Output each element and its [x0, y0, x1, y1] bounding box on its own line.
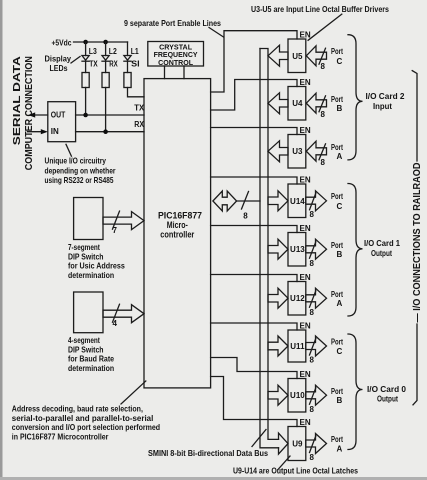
svg-text:U11: U11 — [290, 342, 305, 351]
svg-text:CONTROL: CONTROL — [158, 58, 193, 67]
svg-text:SI: SI — [131, 60, 140, 69]
svg-text:U3: U3 — [292, 147, 303, 156]
svg-text:controller: controller — [160, 229, 194, 239]
svg-text:EN: EN — [300, 418, 311, 427]
svg-text:Port: Port — [331, 290, 343, 299]
svg-text:determination: determination — [68, 270, 114, 280]
svg-text:U14: U14 — [290, 197, 305, 206]
svg-text:8: 8 — [243, 212, 248, 221]
svg-text:Port: Port — [331, 47, 343, 56]
svg-text:EN: EN — [300, 370, 311, 379]
svg-text:C: C — [337, 347, 343, 356]
svg-text:8: 8 — [310, 210, 315, 219]
svg-text:C: C — [337, 202, 343, 211]
svg-text:SERIAL DATA: SERIAL DATA — [11, 56, 23, 146]
svg-text:Output: Output — [371, 248, 392, 258]
svg-text:in PIC16F877 Microcontroller: in PIC16F877 Microcontroller — [12, 431, 109, 441]
svg-text:B: B — [337, 104, 343, 113]
svg-text:+5Vdc: +5Vdc — [52, 38, 72, 48]
svg-text:Port: Port — [331, 338, 343, 347]
svg-text:PIC16F877: PIC16F877 — [158, 211, 202, 221]
svg-text:C: C — [337, 57, 343, 66]
svg-text:LEDs: LEDs — [50, 63, 68, 73]
svg-text:L1: L1 — [131, 47, 139, 56]
svg-text:8: 8 — [321, 158, 326, 167]
svg-text:RX: RX — [134, 120, 144, 129]
svg-text:COMPUTER CONNECTION: COMPUTER CONNECTION — [23, 56, 35, 170]
svg-text:A: A — [337, 299, 343, 308]
svg-text:IN: IN — [51, 126, 59, 136]
svg-text:EN: EN — [300, 273, 311, 282]
svg-text:8: 8 — [310, 453, 315, 462]
svg-text:Port: Port — [331, 192, 343, 201]
svg-text:L2: L2 — [109, 47, 117, 56]
svg-text:EN: EN — [300, 322, 311, 331]
svg-text:U9-U14 are Output Line Octal L: U9-U14 are Output Line Octal Latches — [233, 466, 358, 476]
svg-text:Port: Port — [331, 95, 343, 104]
svg-text:U12: U12 — [290, 294, 305, 303]
svg-text:8: 8 — [310, 308, 315, 317]
svg-text:Input: Input — [373, 101, 392, 111]
svg-text:Port: Port — [331, 143, 343, 152]
svg-text:I/O Card 1: I/O Card 1 — [364, 238, 400, 248]
svg-text:determination: determination — [68, 363, 114, 373]
svg-text:RX: RX — [109, 60, 118, 69]
svg-text:I/O Card 2: I/O Card 2 — [366, 91, 405, 101]
svg-text:U5: U5 — [292, 52, 303, 61]
svg-text:TX: TX — [89, 60, 98, 69]
svg-text:using RS232 or RS485: using RS232 or RS485 — [45, 175, 114, 185]
svg-text:U4: U4 — [292, 99, 303, 108]
svg-text:L3: L3 — [89, 47, 97, 56]
svg-text:Port: Port — [331, 241, 343, 250]
svg-text:Unique I/O circuitry: Unique I/O circuitry — [45, 155, 107, 165]
svg-text:EN: EN — [300, 224, 311, 233]
svg-text:8: 8 — [321, 62, 326, 71]
svg-text:TX: TX — [134, 103, 144, 112]
svg-text:I/O Card 0: I/O Card 0 — [367, 384, 406, 394]
svg-text:B: B — [337, 396, 343, 405]
svg-text:8: 8 — [310, 259, 315, 268]
svg-text:U3-U5 are Input Line Octal Buf: U3-U5 are Input Line Octal Buffer Driver… — [251, 4, 389, 14]
svg-text:SMINI 8-bit Bi-directional Dat: SMINI 8-bit Bi-directional Data Bus — [148, 448, 268, 458]
svg-text:— I/O CONNECTIONS TO RAILRAOD: — I/O CONNECTIONS TO RAILRAOD — [412, 163, 423, 323]
svg-text:A: A — [337, 445, 343, 454]
svg-text:EN: EN — [300, 126, 311, 135]
svg-text:B: B — [337, 250, 343, 259]
svg-text:EN: EN — [300, 31, 311, 40]
svg-text:A: A — [337, 152, 343, 161]
svg-text:depending on whether: depending on whether — [45, 165, 117, 175]
svg-text:Port: Port — [331, 387, 343, 396]
svg-text:8: 8 — [310, 405, 315, 414]
svg-text:U10: U10 — [290, 391, 305, 400]
svg-text:U13: U13 — [290, 245, 305, 254]
svg-text:8: 8 — [321, 110, 326, 119]
svg-text:Output: Output — [377, 394, 398, 404]
svg-text:4: 4 — [113, 319, 118, 328]
svg-text:7: 7 — [113, 226, 118, 235]
svg-text:Port: Port — [331, 435, 343, 444]
svg-text:U9: U9 — [292, 440, 303, 449]
svg-text:Display: Display — [45, 54, 72, 64]
svg-text:OUT: OUT — [51, 109, 66, 119]
svg-text:9 separate Port Enable Lines: 9 separate Port Enable Lines — [124, 18, 221, 28]
svg-text:EN: EN — [300, 78, 311, 87]
svg-text:EN: EN — [300, 176, 311, 185]
svg-text:8: 8 — [310, 356, 315, 365]
